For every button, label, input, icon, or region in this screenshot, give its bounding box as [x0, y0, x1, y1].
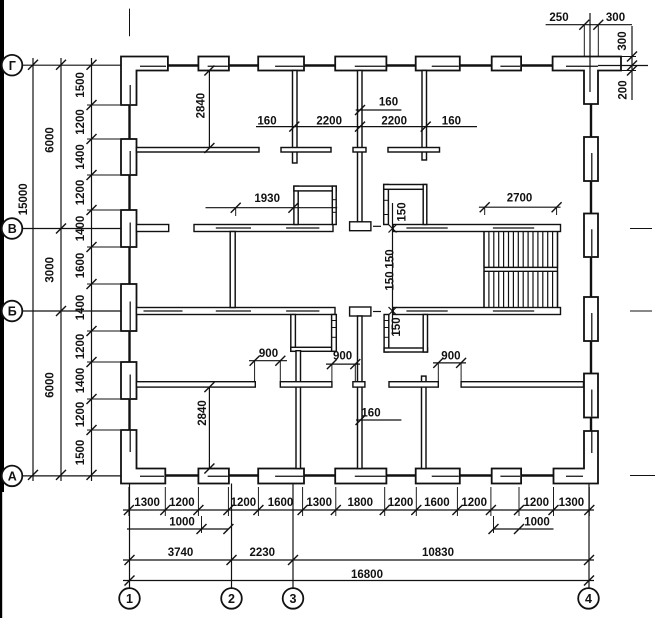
- dim 2840 top line: [208, 71, 210, 149]
- svg-text:В: В: [8, 222, 17, 236]
- pier bottom wall 5: [416, 469, 460, 484]
- right corner dim ticks: [627, 52, 637, 62]
- pier left wall 5: [121, 362, 137, 399]
- svg-text:2700: 2700: [507, 192, 533, 204]
- pier top wall 6: [492, 57, 521, 71]
- shaft box4 left wall: [384, 315, 389, 353]
- svg-text:1000: 1000: [169, 517, 195, 529]
- dim 160 top tick: [355, 105, 365, 115]
- partition V3 right below top wall: [422, 71, 427, 161]
- axis 2 bottom line: [231, 484, 233, 589]
- dim 2700 ticks: [480, 202, 490, 212]
- svg-text:1300: 1300: [559, 497, 585, 509]
- wall H2 segment between Buk and A: [389, 382, 438, 387]
- dim 900 left ticks: [250, 356, 260, 366]
- wall H2 segment between Buk and A: [280, 382, 332, 387]
- stair landing line upper: [484, 266, 558, 268]
- svg-text:300: 300: [606, 12, 625, 24]
- pier left wall 4: [121, 284, 137, 331]
- wire window line left wall: [128, 399, 130, 430]
- svg-text:160: 160: [361, 408, 380, 420]
- wall Buk axis opening line 4: [406, 310, 447, 312]
- svg-text:900: 900: [259, 348, 278, 360]
- scan edge bar: [0, 0, 4, 492]
- dim 900 left line: [249, 360, 287, 362]
- svg-text:1200: 1200: [231, 497, 257, 509]
- dim 2700 ext: [484, 207, 486, 215]
- svg-text:1200: 1200: [75, 180, 87, 206]
- bottom chain3 ticks: [125, 555, 135, 565]
- svg-text:16800: 16800: [351, 569, 383, 581]
- pier top wall 2: [198, 57, 229, 71]
- stair landing line lower: [484, 270, 558, 272]
- svg-text:1200: 1200: [75, 334, 87, 360]
- svg-text:1200: 1200: [524, 497, 550, 509]
- wall H2 segment between Buk and A: [461, 382, 583, 387]
- dim 2840 bottom ticks: [204, 382, 214, 392]
- svg-text:150: 150: [385, 271, 397, 290]
- axis circle Г: [2, 55, 23, 76]
- svg-text:1400: 1400: [75, 216, 87, 242]
- dim 1930 ticks: [231, 203, 241, 213]
- pier right wall 3: [584, 214, 598, 258]
- wire window line bottom wall: [460, 474, 492, 476]
- svg-text:1200: 1200: [75, 109, 87, 135]
- wire window line top wall: [304, 64, 335, 66]
- top corner dim line: [546, 24, 632, 26]
- svg-text:150: 150: [385, 249, 397, 268]
- wall Buk axis opening line 5: [493, 310, 534, 312]
- svg-text:1200: 1200: [169, 497, 195, 509]
- svg-text:1400: 1400: [75, 144, 87, 170]
- pier bottom wall 3: [258, 469, 304, 484]
- wire window line top wall: [460, 64, 492, 66]
- dim 150 mid line: [392, 203, 394, 333]
- bottom chain2 left ticks: [197, 524, 207, 534]
- wire window line top wall: [165, 64, 198, 66]
- axis circle 4: [578, 588, 599, 609]
- wire window line top wall: [386, 64, 415, 66]
- bottom chain1 ticks: [124, 505, 134, 515]
- wall H2 segment between Buk and A: [137, 382, 256, 387]
- svg-text:150: 150: [391, 317, 403, 336]
- axis stub bottom-left corner pier: [140, 475, 164, 477]
- wall H2 segment between Buk and A: [353, 382, 365, 387]
- wall Buk axis dash mark: [373, 311, 381, 313]
- stair well left edge: [483, 232, 485, 308]
- wall Buk axis main left bar: [137, 308, 336, 315]
- pier bottom wall 6: [492, 469, 521, 484]
- stair treads lower flight: [483, 271, 485, 307]
- svg-text:1500: 1500: [75, 72, 87, 98]
- left chain detailed line: [91, 58, 93, 481]
- wire window line bottom wall: [165, 474, 198, 476]
- corner pier bottom-right: [554, 431, 599, 484]
- bottom chain1 extension lines: [128, 487, 130, 516]
- svg-text:6000: 6000: [45, 127, 57, 153]
- axis V right dash: [630, 228, 652, 230]
- shaft box4 bottom wall: [384, 348, 427, 352]
- wire window line left wall: [128, 247, 130, 284]
- axis 4 bottom line: [588, 484, 590, 589]
- pier left wall 2: [121, 139, 137, 175]
- top corner ext lines: [583, 25, 585, 57]
- wire window line left wall: [128, 105, 130, 139]
- dim 2840 bottom line: [208, 387, 210, 468]
- svg-text:1500: 1500: [75, 440, 87, 466]
- axis circle 2: [221, 588, 242, 609]
- axis 1 top extension: [129, 9, 131, 37]
- bottom chain2 right ticks: [489, 524, 499, 534]
- svg-text:2840: 2840: [197, 400, 209, 426]
- dim 2200 ticks: [289, 122, 299, 132]
- axis stub bottom-left corner leg: [129, 430, 131, 452]
- svg-text:6000: 6000: [45, 372, 57, 398]
- partition H1 segment: [137, 148, 260, 153]
- svg-text:4: 4: [585, 592, 592, 606]
- axis circle 1: [119, 588, 140, 609]
- svg-text:3740: 3740: [168, 547, 194, 559]
- svg-text:1600: 1600: [268, 497, 294, 509]
- axis stub top-left corner leg: [129, 85, 131, 104]
- wire window line top wall: [521, 64, 553, 66]
- bottom chain2 right ext: [493, 516, 495, 533]
- corner pier bottom-left: [121, 430, 165, 484]
- wall B axis opening line 4: [493, 227, 534, 229]
- shaft box3 top wall: [384, 185, 427, 190]
- dim 160 bottom line: [356, 419, 401, 421]
- bottom chain4 line: [123, 580, 594, 582]
- svg-text:10830: 10830: [422, 547, 454, 559]
- pier left wall 3: [121, 210, 137, 247]
- svg-text:160: 160: [257, 115, 276, 127]
- wire window line right wall: [590, 341, 592, 374]
- svg-text:200: 200: [618, 80, 630, 99]
- dim 160 top line: [356, 109, 402, 111]
- wall Buk axis main right bar: [393, 308, 560, 315]
- svg-text:1800: 1800: [348, 497, 374, 509]
- shaft box1 right wall: [332, 186, 336, 224]
- pier right wall 4: [584, 297, 598, 341]
- shaft box2 right wall: [332, 315, 337, 352]
- pier right wall 5: [584, 374, 598, 418]
- axis circle Б: [2, 301, 23, 322]
- left chain detailed ticks: [87, 60, 97, 70]
- axis line Buk horizontal: [23, 310, 122, 312]
- bottom chain1 line: [123, 509, 594, 511]
- left chain 6000 line: [60, 58, 62, 481]
- shaft box1 right wall ticks: [332, 199, 336, 201]
- partition P2 between B and Buk: [230, 232, 235, 308]
- svg-text:300: 300: [617, 31, 629, 50]
- svg-text:160: 160: [379, 97, 398, 109]
- wall B axis stub left: [137, 225, 169, 232]
- shaft box3 left wall: [384, 185, 389, 225]
- dim 900 mid ext: [331, 364, 333, 382]
- partition H1 segment: [388, 148, 440, 153]
- wire window line right wall: [590, 418, 592, 432]
- dim 2840 top ticks: [204, 66, 214, 76]
- svg-text:1600: 1600: [75, 253, 87, 279]
- shaft box3 left wall ticks: [384, 199, 389, 201]
- svg-text:1: 1: [126, 592, 133, 606]
- svg-text:2840: 2840: [196, 93, 208, 119]
- wire window line left wall: [128, 331, 130, 362]
- axis 3 bottom line: [292, 484, 294, 589]
- svg-text:2230: 2230: [250, 547, 276, 559]
- wire window line top wall: [229, 64, 258, 66]
- svg-text:1200: 1200: [75, 402, 87, 428]
- corner pier top-right: [553, 57, 621, 105]
- partition V2 central below top wall: [358, 71, 363, 223]
- wall B axis opening line 1: [216, 227, 251, 229]
- axis stub bottom-right corner pier: [566, 475, 583, 477]
- axis stubs inside bottom piers: [208, 475, 228, 477]
- pier top wall 4: [335, 57, 386, 71]
- dim 1930 ext: [235, 208, 237, 216]
- wall B axis opening line 3: [406, 227, 447, 229]
- wall Buk axis stub cap: [350, 307, 371, 316]
- axis stubs inside right piers: [591, 153, 593, 180]
- svg-text:2: 2: [228, 592, 235, 606]
- shaft box2 right wall ticks: [332, 320, 337, 322]
- axis circle В: [2, 218, 23, 239]
- bottom chain3 line: [123, 559, 594, 561]
- left chain 6000 ticks: [56, 60, 66, 70]
- axis stub top-right corner pier: [566, 65, 598, 67]
- svg-text:1600: 1600: [424, 497, 450, 509]
- axis stubs inside left piers: [129, 151, 131, 174]
- shaft box4 right wall: [423, 315, 427, 353]
- axis circle 3: [283, 588, 304, 609]
- top corner dim ticks: [579, 20, 589, 30]
- bottom chain2 right line: [494, 528, 554, 530]
- wall B axis dash mark: [373, 225, 381, 227]
- svg-text:150: 150: [397, 202, 409, 221]
- dim 900 left ext: [254, 361, 256, 382]
- wall B axis main left bar: [194, 225, 333, 232]
- dim 900 right line: [433, 362, 466, 364]
- dim 150 mid ticks: [389, 225, 397, 233]
- stair treads upper flight: [483, 232, 485, 268]
- svg-text:2200: 2200: [381, 115, 407, 127]
- svg-text:160: 160: [442, 115, 461, 127]
- wall Buk axis opening line 1: [144, 310, 183, 312]
- dim 2200 line: [256, 126, 477, 128]
- axis line A horizontal: [23, 475, 122, 477]
- wall Buk axis opening line 3: [286, 310, 319, 312]
- dim 160 bottom tick: [356, 415, 366, 425]
- axis stub top-left corner pier: [140, 65, 166, 67]
- shaft box1 left wall: [294, 186, 298, 224]
- stair well right edge: [557, 232, 559, 308]
- axis 1 bottom line: [129, 484, 131, 589]
- bottom chain4 ticks: [125, 576, 135, 586]
- left chain extension lines: [87, 104, 120, 106]
- partition Pa3 lower left-centre: [296, 351, 301, 469]
- shaft box1 top wall: [294, 186, 336, 191]
- partition Par lower right: [422, 376, 427, 468]
- shaft box3 right wall: [423, 185, 427, 225]
- axis G right extension: [598, 65, 648, 67]
- right corner ext lines: [599, 56, 636, 58]
- dim 1930 line: [206, 207, 338, 209]
- pier bottom wall 2: [198, 469, 229, 484]
- shaft box4 left wall ticks: [384, 320, 389, 322]
- svg-text:3: 3: [290, 592, 297, 606]
- svg-text:15000: 15000: [18, 183, 30, 215]
- svg-text:Б: Б: [8, 305, 17, 319]
- wire window line bottom wall: [519, 474, 554, 476]
- shaft box2 bottom wall: [291, 347, 337, 351]
- wire window line bottom wall: [304, 474, 335, 476]
- svg-text:900: 900: [441, 351, 460, 363]
- svg-text:1400: 1400: [75, 368, 87, 394]
- partition H1 segment: [281, 148, 331, 153]
- axis Buk right dash: [630, 310, 652, 312]
- wall B axis stub cap: [350, 222, 371, 231]
- svg-text:3000: 3000: [45, 257, 57, 283]
- svg-text:900: 900: [333, 351, 352, 363]
- svg-text:2200: 2200: [316, 115, 342, 127]
- wire window line right wall: [590, 257, 592, 297]
- shaft box2 left wall: [291, 315, 296, 352]
- axis circle А: [2, 466, 23, 487]
- svg-text:1000: 1000: [524, 517, 550, 529]
- svg-text:1300: 1300: [134, 497, 160, 509]
- wall B axis main right bar: [393, 225, 560, 232]
- partition H1 segment: [353, 148, 366, 153]
- wall B axis opening line 2: [286, 227, 319, 229]
- wall Buk axis opening line 2: [216, 310, 251, 312]
- svg-text:1300: 1300: [306, 497, 332, 509]
- wire window line right wall: [590, 181, 592, 214]
- corner pier top-left: [121, 57, 168, 106]
- dim 900 right ticks: [433, 358, 443, 368]
- bottom chain2 left line: [127, 528, 228, 530]
- wire window line bottom wall: [386, 474, 415, 476]
- pier top wall 3: [258, 57, 304, 71]
- pier bottom wall 4: [335, 469, 386, 484]
- axis line V horizontal: [23, 228, 122, 230]
- pier right wall 2: [584, 137, 598, 181]
- dim 900 mid line: [326, 363, 360, 365]
- svg-text:1200: 1200: [461, 497, 487, 509]
- left chain 15000 line: [32, 58, 34, 481]
- axis A right dash: [630, 475, 655, 477]
- dim 900 right ext: [437, 363, 439, 382]
- svg-text:250: 250: [549, 12, 568, 24]
- axis stubs inside top piers: [208, 65, 228, 67]
- axis 4 top extension: [589, 13, 591, 92]
- svg-text:1400: 1400: [75, 295, 87, 321]
- svg-text:Г: Г: [9, 59, 16, 73]
- right corner dim line: [631, 26, 633, 100]
- partition V1 below top wall at axis 3: [293, 71, 298, 164]
- axis stub bottom-right corner leg: [591, 431, 593, 453]
- axis line G horizontal: [23, 64, 122, 66]
- pier top wall 5: [416, 57, 460, 71]
- svg-text:А: А: [8, 470, 17, 484]
- svg-text:1200: 1200: [388, 497, 414, 509]
- wire window line left wall: [128, 175, 130, 210]
- dim 900 mid ticks: [327, 359, 337, 369]
- left chain 15000 ticks: [28, 60, 38, 70]
- partition Pac lower central: [358, 316, 363, 469]
- dim 2700 line: [479, 206, 561, 208]
- wire window line right wall: [590, 104, 592, 137]
- bottom chain2 left ext: [201, 516, 203, 533]
- wire window line bottom wall: [229, 474, 258, 476]
- svg-text:1930: 1930: [254, 193, 280, 205]
